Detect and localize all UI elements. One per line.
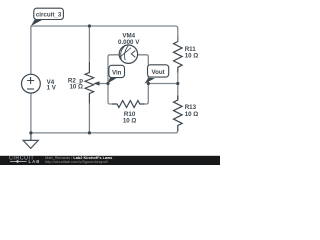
flag circuit_3	[31, 8, 64, 26]
svg-text:10 Ω: 10 Ω	[185, 111, 199, 118]
pot wiper arrow	[93, 81, 99, 85]
svg-text:10 Ω: 10 Ω	[69, 83, 83, 90]
resistor R13	[174, 96, 183, 131]
wire top horizontal	[31, 26, 178, 42]
wire voltmeter left branch	[108, 55, 119, 84]
wire Vout node to R11/R13 junction	[148, 83, 178, 85]
svg-text:Vin: Vin	[112, 69, 122, 76]
svg-text:http://circuitlab.com/c/5guum4: http://circuitlab.com/c/5guum4zwpc8	[45, 159, 108, 164]
resistor R10	[112, 101, 145, 108]
svg-text:0.000 V: 0.000 V	[118, 39, 140, 46]
junction V4 bottom / ground	[29, 131, 32, 134]
ground	[23, 133, 38, 149]
footer bar	[0, 156, 220, 165]
wire pot top vertical	[88, 26, 90, 62]
potentiometer R2_p	[85, 62, 94, 104]
flag Vin	[108, 65, 125, 83]
resistor R11	[174, 37, 183, 73]
node Vin junction	[106, 82, 109, 85]
wire R10 right vertical	[145, 84, 148, 105]
wire wiper to Vin node	[96, 83, 108, 85]
voltmeter VM4	[119, 45, 137, 63]
flag Vout	[144, 65, 168, 84]
wire R13 bottom lead	[177, 129, 179, 131]
wire bottom horizontal	[31, 130, 178, 133]
junction pot top	[88, 24, 91, 27]
svg-text:10 Ω: 10 Ω	[185, 53, 199, 60]
svg-text:Vout: Vout	[151, 69, 164, 76]
wire voltmeter right branch	[138, 55, 149, 84]
wire R11 bottom to junction	[177, 73, 179, 84]
wire pot bottom vertical	[88, 104, 90, 133]
wire R13 top lead	[177, 84, 179, 101]
wire V4 left vertical	[30, 26, 32, 74]
svg-text:circuit_3: circuit_3	[36, 11, 62, 18]
wire V4 bottom vertical	[30, 93, 32, 133]
svg-text:LAB: LAB	[29, 159, 41, 164]
svg-text:10 Ω: 10 Ω	[123, 117, 137, 124]
junction pot bottom	[88, 131, 91, 134]
wire R11 top lead	[177, 37, 179, 42]
voltage source V4	[22, 74, 41, 93]
wire R10 left vertical	[108, 84, 112, 105]
node Vout junction	[147, 82, 150, 85]
junction R11/R13	[176, 82, 179, 85]
svg-text:1 V: 1 V	[47, 85, 57, 92]
